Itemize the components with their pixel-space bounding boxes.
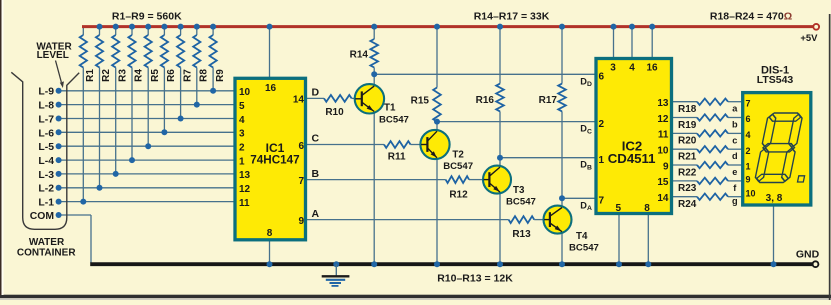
- svg-text:16: 16: [646, 63, 658, 74]
- svg-text:R24: R24: [678, 199, 697, 210]
- svg-text:74HC147: 74HC147: [250, 154, 299, 167]
- svg-text:5: 5: [239, 101, 245, 112]
- svg-text:1: 1: [599, 155, 605, 166]
- svg-text:R1–R9 = 560K: R1–R9 = 560K: [112, 11, 182, 23]
- svg-text:c: c: [732, 135, 737, 145]
- svg-text:2: 2: [746, 146, 751, 156]
- svg-text:R19: R19: [678, 120, 697, 131]
- svg-text:B: B: [312, 168, 320, 180]
- svg-text:R3: R3: [117, 69, 128, 82]
- svg-text:C: C: [312, 133, 320, 145]
- svg-text:15: 15: [657, 177, 669, 188]
- svg-text:3, 8: 3, 8: [766, 193, 783, 204]
- svg-text:16: 16: [265, 83, 277, 94]
- svg-text:e: e: [732, 167, 737, 177]
- svg-text:L-4: L-4: [38, 156, 54, 167]
- svg-text:6: 6: [298, 141, 304, 152]
- svg-text:R14: R14: [350, 50, 369, 61]
- svg-text:R23: R23: [678, 183, 697, 194]
- svg-text:T4: T4: [576, 231, 588, 242]
- svg-text:a: a: [732, 104, 738, 114]
- svg-text:2: 2: [599, 119, 605, 130]
- svg-text:14: 14: [657, 193, 669, 204]
- svg-text:3: 3: [610, 63, 616, 74]
- svg-text:R18: R18: [678, 104, 697, 115]
- svg-text:R10–R13 = 12K: R10–R13 = 12K: [437, 273, 513, 285]
- svg-text:BC547: BC547: [506, 197, 536, 208]
- svg-text:R14–R17 = 33K: R14–R17 = 33K: [474, 11, 550, 23]
- svg-text:L-8: L-8: [38, 101, 54, 112]
- svg-text:7: 7: [298, 176, 304, 187]
- svg-text:BC547: BC547: [569, 243, 599, 254]
- svg-text:LEVEL: LEVEL: [37, 50, 69, 61]
- svg-text:L-1: L-1: [38, 198, 54, 209]
- svg-text:R6: R6: [166, 69, 177, 82]
- svg-text:R16: R16: [476, 95, 495, 106]
- svg-text:COM: COM: [30, 211, 54, 222]
- svg-text:T2: T2: [452, 150, 464, 161]
- svg-text:8: 8: [267, 228, 273, 239]
- svg-text:D: D: [312, 87, 320, 99]
- svg-text:R17: R17: [539, 95, 558, 106]
- svg-text:4: 4: [239, 115, 245, 126]
- svg-text:R22: R22: [678, 167, 697, 178]
- svg-text:R8: R8: [199, 69, 210, 82]
- svg-text:R20: R20: [678, 136, 697, 147]
- svg-text:T3: T3: [513, 185, 525, 196]
- svg-text:13: 13: [657, 98, 669, 109]
- svg-text:LTS543: LTS543: [757, 74, 794, 86]
- svg-text:12: 12: [657, 114, 669, 125]
- svg-text:12: 12: [239, 184, 251, 195]
- svg-text:L-7: L-7: [38, 114, 54, 125]
- svg-text:R5: R5: [150, 69, 161, 82]
- svg-text:g: g: [732, 196, 738, 206]
- svg-text:R11: R11: [388, 152, 406, 163]
- svg-text:R1: R1: [85, 69, 96, 82]
- svg-text:11: 11: [658, 130, 669, 141]
- svg-text:7: 7: [599, 196, 605, 207]
- svg-text:GND: GND: [796, 249, 820, 261]
- svg-text:R4: R4: [134, 69, 145, 82]
- svg-text:R12: R12: [449, 190, 468, 201]
- svg-text:8: 8: [644, 203, 650, 214]
- svg-text:d: d: [732, 151, 738, 161]
- svg-text:6: 6: [599, 72, 605, 83]
- svg-text:R10: R10: [325, 107, 344, 118]
- svg-text:R2: R2: [101, 69, 112, 82]
- svg-text:4: 4: [629, 63, 635, 74]
- svg-text:+5V: +5V: [800, 33, 818, 44]
- svg-text:CONTAINER: CONTAINER: [17, 248, 76, 259]
- svg-text:R15: R15: [411, 96, 430, 107]
- svg-text:BC547: BC547: [443, 161, 473, 172]
- svg-text:1: 1: [746, 162, 751, 172]
- svg-text:R13: R13: [512, 229, 531, 240]
- svg-text:9: 9: [663, 161, 669, 172]
- svg-text:9: 9: [298, 216, 304, 227]
- svg-text:10: 10: [746, 189, 756, 199]
- svg-text:b: b: [732, 120, 738, 130]
- svg-text:11: 11: [239, 198, 250, 209]
- svg-text:2: 2: [239, 143, 245, 154]
- svg-text:T1: T1: [384, 103, 396, 114]
- svg-text:9: 9: [746, 174, 751, 184]
- svg-text:L-6: L-6: [38, 128, 54, 139]
- svg-text:R9: R9: [215, 69, 226, 82]
- svg-text:5: 5: [616, 203, 622, 214]
- svg-text:L-5: L-5: [38, 142, 54, 153]
- svg-text:6: 6: [746, 114, 751, 124]
- svg-text:R7: R7: [182, 69, 193, 82]
- svg-text:10: 10: [657, 145, 669, 156]
- svg-text:BC547: BC547: [379, 114, 409, 125]
- svg-text:10: 10: [239, 87, 251, 98]
- svg-text:A: A: [312, 208, 320, 220]
- svg-text:13: 13: [239, 170, 251, 181]
- svg-text:R18–R24 = 470Ω: R18–R24 = 470Ω: [710, 11, 792, 23]
- svg-text:L-2: L-2: [38, 184, 54, 195]
- svg-text:CD4511: CD4511: [608, 151, 656, 166]
- svg-text:7: 7: [746, 98, 751, 108]
- svg-text:R21: R21: [678, 151, 697, 162]
- svg-text:3: 3: [239, 129, 245, 140]
- svg-text:4: 4: [746, 130, 751, 140]
- svg-text:L-3: L-3: [38, 170, 54, 181]
- svg-text:1: 1: [239, 156, 245, 167]
- svg-text:WATER: WATER: [29, 237, 65, 248]
- svg-text:14: 14: [293, 95, 305, 106]
- svg-text:L-9: L-9: [38, 87, 54, 98]
